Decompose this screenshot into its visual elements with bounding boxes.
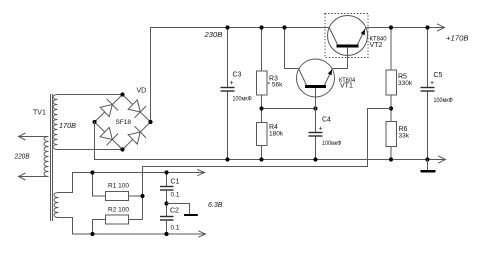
wire feedback divider to R1R2 node <box>143 109 392 220</box>
svg-text:+: + <box>230 80 234 87</box>
junction bridge left node <box>92 120 96 124</box>
svg-text:R2 100: R2 100 <box>108 207 129 214</box>
svg-text:6.3В: 6.3В <box>208 200 223 209</box>
svg-text:C5: C5 <box>434 72 443 79</box>
svg-text:220В: 220В <box>14 152 30 161</box>
svg-text:TV1: TV1 <box>33 110 46 117</box>
transistor VT2 KT840 <box>328 16 368 56</box>
wire secondary top to bridge <box>58 94 123 96</box>
wire primary bottom lead <box>19 176 49 178</box>
svg-text:100мкФ: 100мкФ <box>322 140 341 147</box>
wire VT1 collector to 230V rail <box>285 28 299 69</box>
svg-text:100мкФ: 100мкФ <box>233 96 252 103</box>
junction C1 on 6.3V top rail <box>164 170 168 174</box>
transformer TV1 heater winding 6.3V <box>54 193 59 218</box>
resistor R4 <box>257 109 268 160</box>
capacitor C3 <box>221 28 235 160</box>
wire 6.3V top rail <box>59 173 206 193</box>
wire C1C2 midpoint to ground <box>167 204 190 215</box>
junction C5 ground on ground rail <box>425 157 429 161</box>
resistor R3 <box>257 28 268 109</box>
svg-text:SF18: SF18 <box>116 119 132 126</box>
transformer TV1 core <box>51 94 53 221</box>
wire bias node R3R4 to VT1 base <box>262 108 316 110</box>
wire 6.3V bottom rail <box>59 218 206 235</box>
svg-text:330k: 330k <box>398 80 413 87</box>
junction R1 R2 right node <box>140 194 144 198</box>
node 220V bottom arrow <box>19 173 26 180</box>
svg-text:C3: C3 <box>233 72 242 79</box>
svg-text:170В: 170В <box>59 121 76 130</box>
junction C4 on ground rail <box>313 157 317 161</box>
junction R3 R4 divider <box>259 106 263 110</box>
svg-text:C4: C4 <box>322 117 331 124</box>
wire primary top lead <box>19 136 49 138</box>
svg-text:33k: 33k <box>399 133 410 140</box>
diode D1 (left to top) <box>100 99 118 117</box>
wire VT1 emitter to VT2 base <box>333 48 348 69</box>
wire secondary bottom to bridge <box>58 149 123 151</box>
junction C2 on 6.3V bottom rail <box>164 232 168 236</box>
svg-text:0.1: 0.1 <box>171 225 180 232</box>
resistor R1 <box>93 173 143 201</box>
node +170V arrow <box>437 24 445 31</box>
junction R3 on top rail <box>259 25 263 29</box>
wire ground rail (bridge minus to right arrow) <box>95 122 446 160</box>
ground symbol main <box>421 160 436 173</box>
transformer TV1 primary winding 220V <box>44 137 49 177</box>
svg-text:C2: C2 <box>170 208 179 215</box>
resistor R6 <box>386 109 397 160</box>
junction VT1 collector on rail <box>282 25 286 29</box>
junction R1 on 6.3V top rail <box>90 170 94 174</box>
svg-text:+: + <box>430 80 434 87</box>
wire top rail right segment to +170V arrow <box>366 27 445 29</box>
transistor VT2 heatsink dotted box <box>325 14 368 58</box>
junction R6 on ground rail <box>389 157 393 161</box>
junction R2 on 6.3V bottom rail <box>90 232 94 236</box>
capacitor C4 <box>309 109 323 160</box>
diode D3 (left to bottom) <box>100 127 118 145</box>
svg-text:VD: VD <box>137 88 147 95</box>
junction bridge bottom node <box>120 147 124 151</box>
node 220V top arrow <box>19 133 26 140</box>
svg-text:+170В: +170В <box>446 34 469 43</box>
junction VT1 base node <box>313 106 317 110</box>
svg-text:100мкФ: 100мкФ <box>434 97 453 104</box>
svg-text:180k: 180k <box>269 131 284 138</box>
svg-text:230В: 230В <box>203 30 222 39</box>
junction C3 on top rail <box>225 25 229 29</box>
ground symbol heater <box>184 214 198 216</box>
diode bridge VD diamond <box>95 95 151 150</box>
capacitor C1 <box>160 173 174 204</box>
svg-text:VT2: VT2 <box>370 42 383 49</box>
diode D2 (top to right) <box>128 100 146 118</box>
svg-text:VT1: VT1 <box>340 83 353 90</box>
capacitor C2 <box>160 204 174 235</box>
junction C1 C2 midpoint <box>164 201 168 205</box>
resistor R2 <box>93 215 143 234</box>
junction bridge right node <box>148 120 152 124</box>
junction bridge top node <box>120 92 124 96</box>
transistor VT1 KT604 <box>297 59 335 109</box>
transformer TV1 secondary winding 170V <box>53 95 58 150</box>
resistor R5 <box>386 28 397 109</box>
diode D4 (bottom to right) <box>128 126 146 144</box>
junction R5 on top rail <box>389 25 393 29</box>
svg-text:* 56k: * 56k <box>268 82 284 89</box>
capacitor C5 <box>421 28 435 160</box>
svg-text:0.1: 0.1 <box>171 192 180 199</box>
node ground rail right arrow <box>438 156 446 163</box>
svg-text:C1: C1 <box>171 179 180 186</box>
wire top rail left segment (230V rail) <box>151 28 330 123</box>
junction C5 on top rail <box>425 25 429 29</box>
junction R5 R6 divider <box>389 106 393 110</box>
junction R4 on ground rail <box>259 157 263 161</box>
svg-text:R1 100: R1 100 <box>108 183 129 190</box>
svg-text:+: + <box>319 126 323 133</box>
junction C3 on ground rail <box>225 157 229 161</box>
node 6.3V top arrow <box>197 169 204 175</box>
node 6.3V bottom arrow <box>198 231 205 237</box>
